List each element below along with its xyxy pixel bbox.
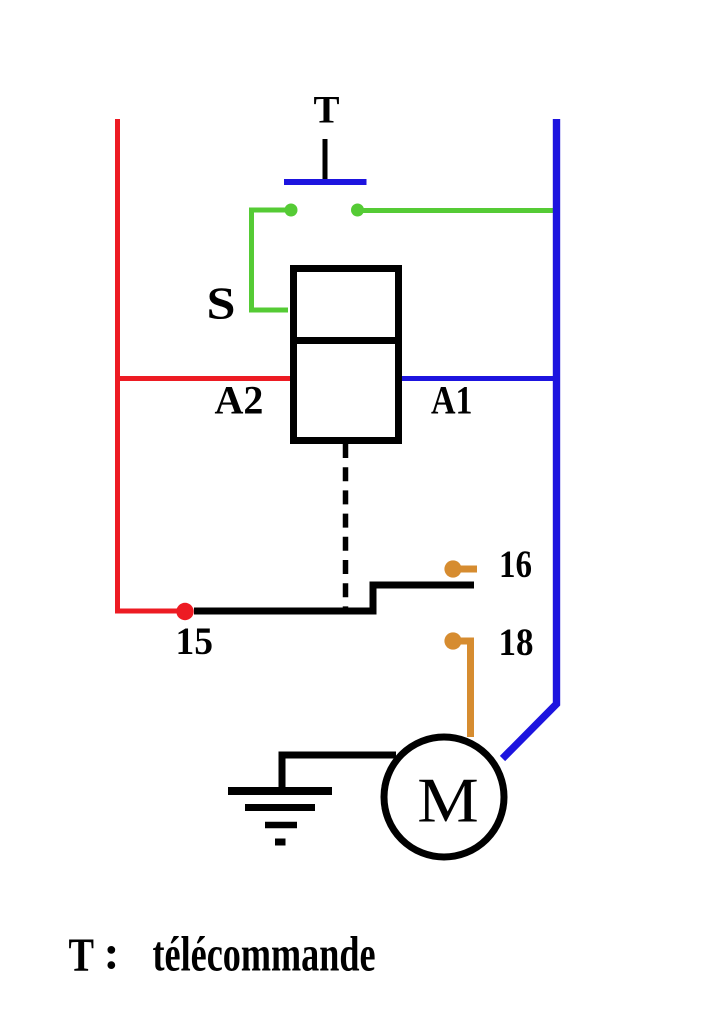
wire motor to ground	[282, 755, 396, 789]
terminal 16 stub	[453, 566, 477, 573]
wire green left contact to relay coil S	[252, 210, 292, 310]
legend T : telecommande	[69, 925, 376, 982]
relay box	[294, 269, 399, 441]
svg-text:S: S	[207, 279, 236, 329]
svg-text:16: 16	[499, 543, 532, 586]
svg-text:15: 15	[176, 620, 214, 663]
wire green right contact to blue bus	[358, 208, 554, 213]
terminal 15 dot	[176, 603, 193, 620]
svg-text::: :	[104, 927, 120, 980]
svg-text:A1: A1	[431, 377, 473, 422]
wire blue bus vertical with bend to motor	[503, 119, 557, 759]
motor M circle	[384, 737, 504, 857]
pushbutton T right contact dot	[351, 204, 364, 217]
svg-text:T: T	[69, 929, 95, 982]
pushbutton T contact bar	[284, 179, 367, 185]
wire switch common (15 to contact)	[194, 585, 474, 611]
ground symbol	[228, 791, 332, 842]
svg-text:télécommande: télécommande	[153, 925, 376, 981]
wire orange 18 to motor	[453, 641, 471, 737]
wire red supply to terminal 15	[118, 119, 182, 611]
svg-text:M: M	[417, 766, 479, 836]
dashed actuator linkage	[343, 444, 349, 612]
wire blue A1	[402, 376, 553, 381]
svg-text:18: 18	[499, 621, 534, 664]
terminal 16 dot	[444, 560, 461, 577]
terminal 18 dot	[444, 632, 461, 649]
svg-text:T: T	[314, 88, 340, 131]
svg-text:A2: A2	[215, 377, 264, 422]
pushbutton T actuator stem	[323, 139, 328, 182]
relay divider line	[290, 337, 402, 344]
pushbutton T left contact dot	[285, 204, 298, 217]
wire red A2	[118, 376, 290, 381]
